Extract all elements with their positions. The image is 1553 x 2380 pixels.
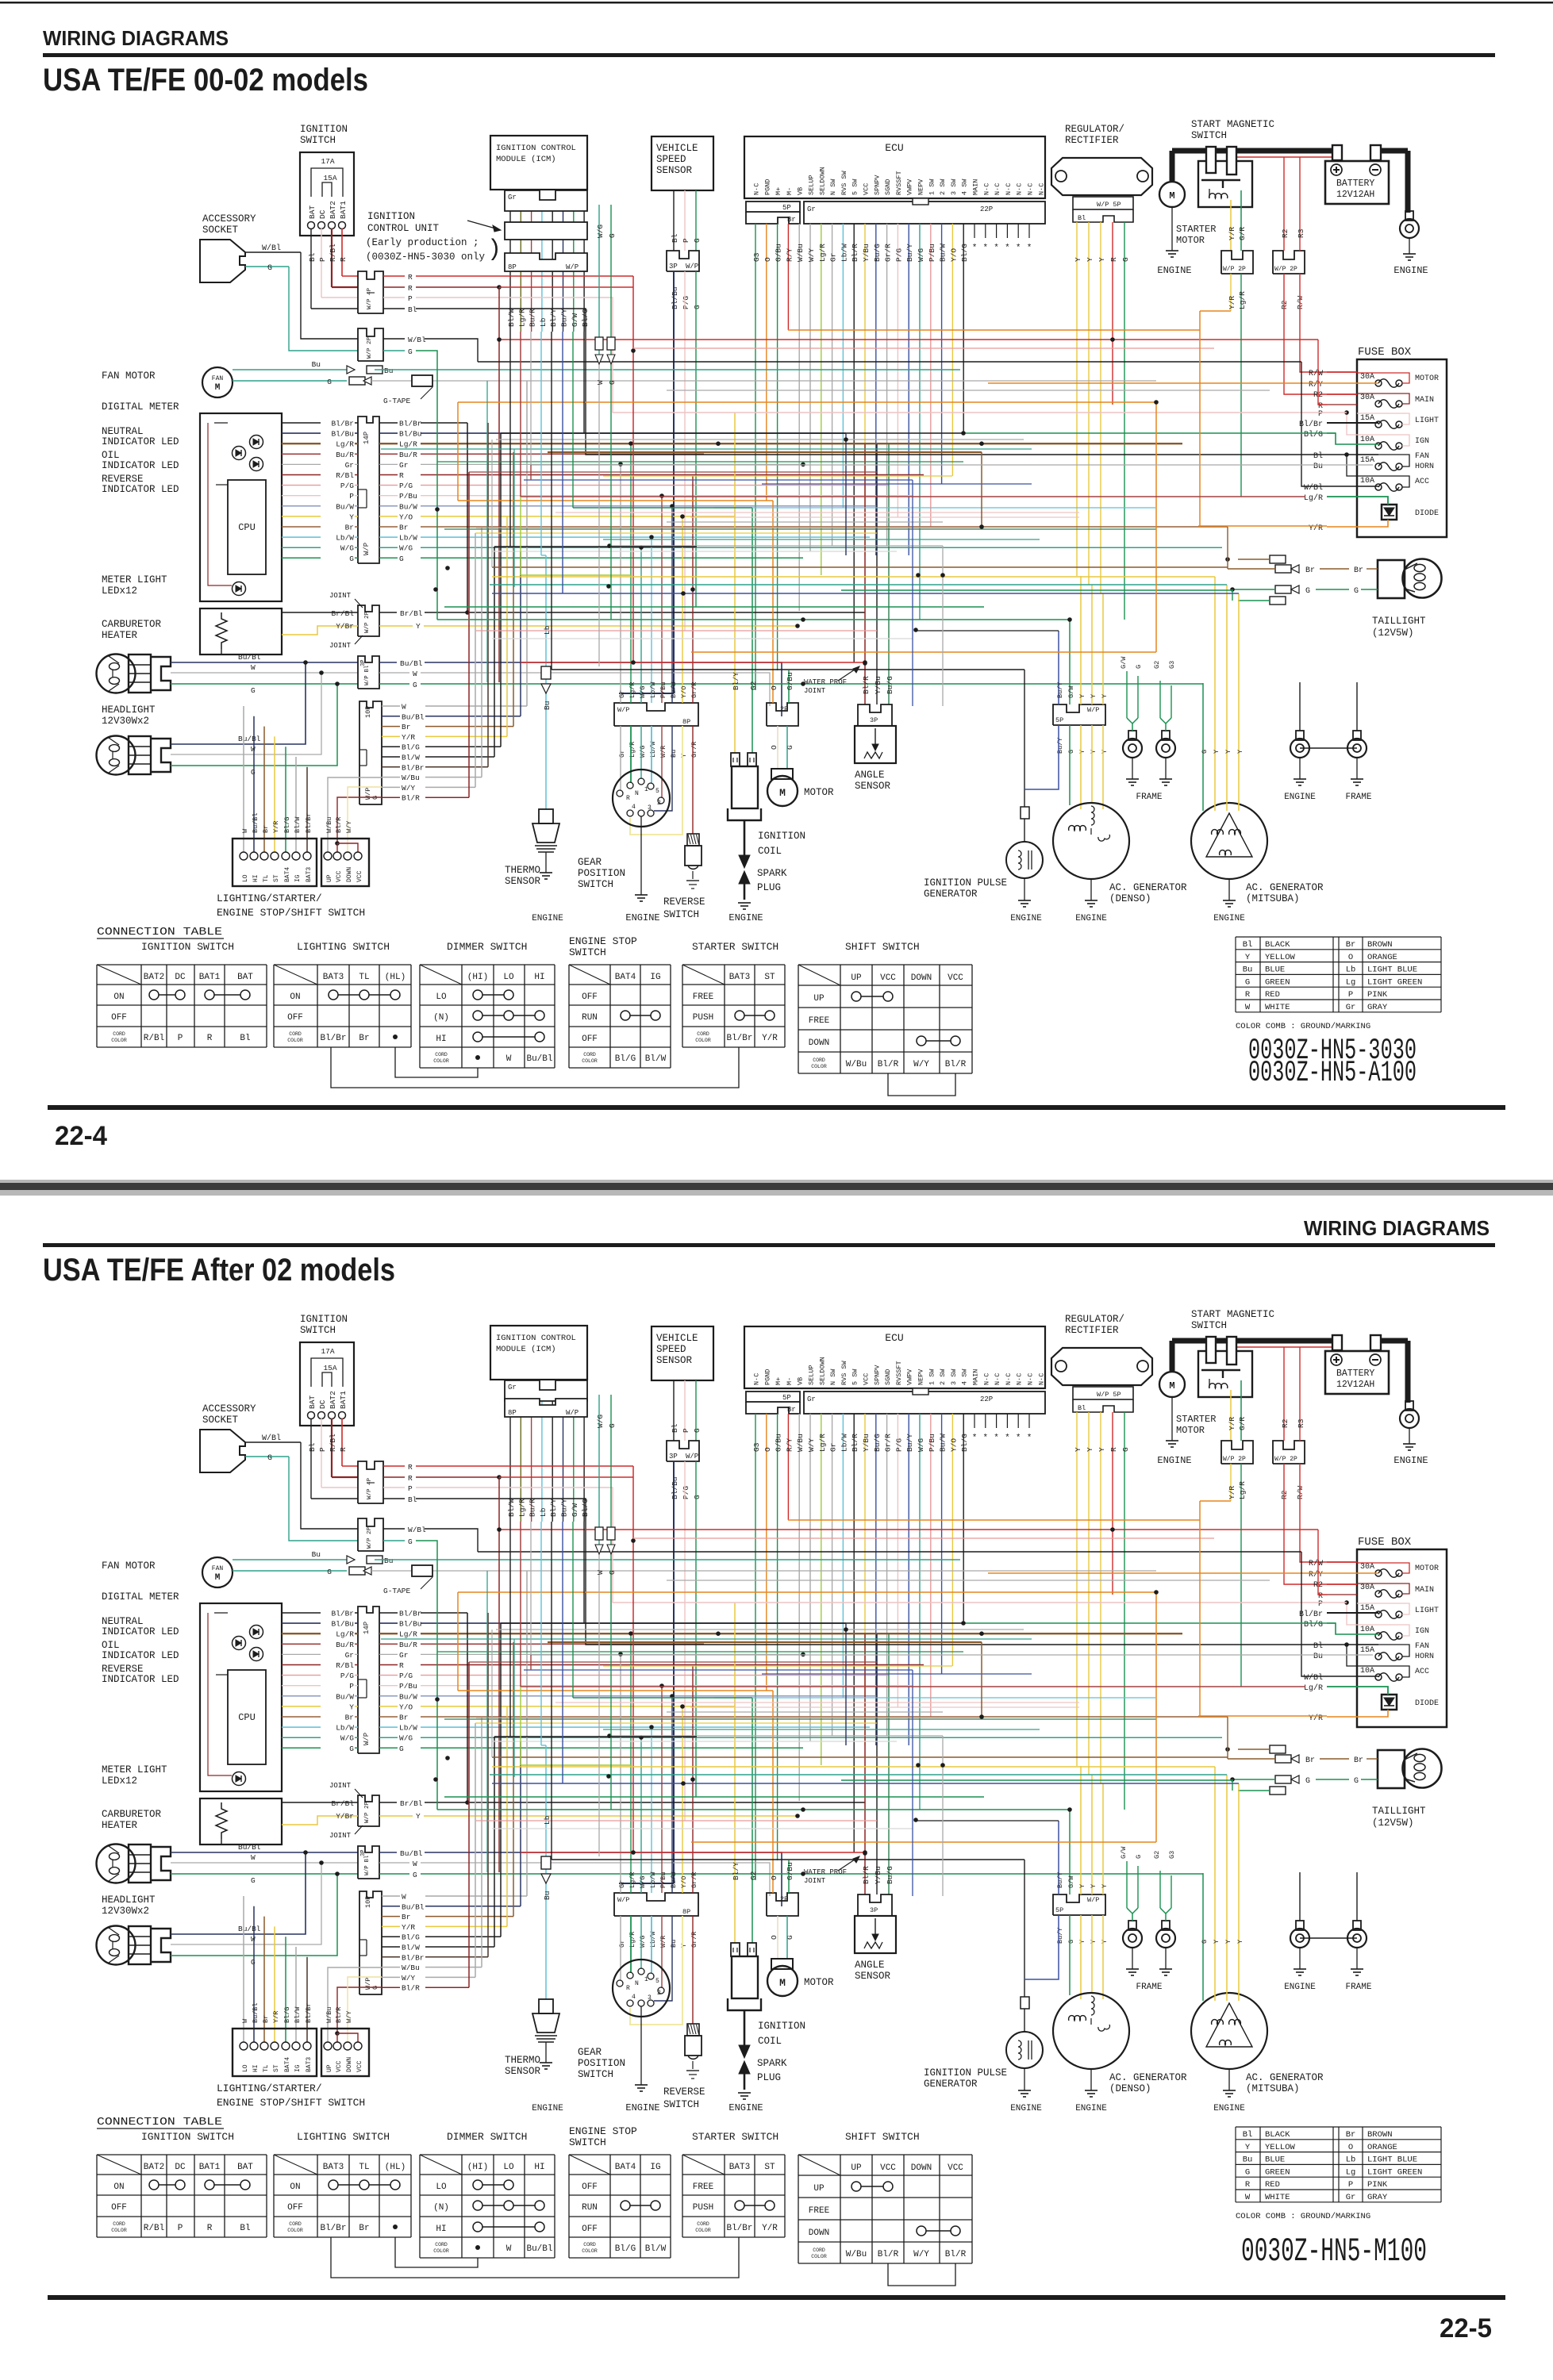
2P right rows W/Bl G: [383, 1528, 405, 1530]
shift switch box: [321, 839, 369, 886]
svg-text:Y/O: Y/O: [399, 512, 413, 521]
svg-text:Lb/W: Lb/W: [399, 1724, 417, 1733]
svg-text:Bl/R: Bl/R: [878, 1060, 899, 1069]
svg-text:Bu: Bu: [384, 367, 393, 375]
svg-text:Gr: Gr: [1346, 2193, 1356, 2202]
svg-text:SELUP: SELUP: [808, 1365, 816, 1385]
svg-text:Bl: Bl: [1078, 1404, 1086, 1412]
svg-text:Bl: Bl: [1078, 214, 1086, 222]
svg-text:Gr/R: Gr/R: [884, 244, 893, 262]
battery terminal stubs: [1332, 145, 1342, 160]
svg-text:JOINT: JOINT: [329, 1832, 352, 1840]
svg-text:R3: R3: [1297, 228, 1305, 238]
svg-text:3P: 3P: [870, 716, 878, 724]
svg-text:W/P: W/P: [686, 263, 698, 271]
svg-text:G3: G3: [1168, 1851, 1176, 1859]
W/P 2P connector (starter relay): [1221, 1441, 1253, 1464]
diode: [1382, 1695, 1397, 1710]
svg-text:Bl/R: Bl/R: [335, 817, 343, 833]
svg-text:ENGINE: ENGINE: [728, 912, 763, 923]
svg-text:INDICATOR LED: INDICATOR LED: [102, 484, 179, 495]
svg-text:Bl/R: Bl/R: [851, 1434, 859, 1452]
svg-text:Bl/Br: Bl/Br: [399, 1610, 422, 1618]
svg-text:GRAY: GRAY: [1367, 2193, 1388, 2202]
svg-text:Bl/Bu: Bl/Bu: [331, 430, 354, 439]
svg-text:P: P: [349, 1682, 354, 1691]
svg-text:W/P 5P: W/P 5P: [1097, 1391, 1121, 1399]
svg-text:IGNITION PULSE: IGNITION PULSE: [924, 877, 1007, 889]
svg-text:N·C: N·C: [982, 1373, 990, 1385]
switch wires up to 10P: [243, 1896, 244, 2042]
svg-text:W: W: [506, 2244, 512, 2254]
motor wires O G/Bu: [772, 501, 774, 703]
svg-text:Bl/W: Bl/W: [294, 2006, 302, 2023]
headlight 1 wires Bu/Bl W G: [171, 1852, 358, 1853]
svg-text:BAT2: BAT2: [329, 201, 337, 219]
svg-text:3P: 3P: [870, 1906, 878, 1914]
svg-text:Br: Br: [1305, 1756, 1315, 1765]
svg-text:R/Y: R/Y: [785, 1438, 794, 1452]
svg-text:Br: Br: [1346, 2130, 1356, 2140]
svg-text:R: R: [207, 2224, 213, 2233]
svg-text:G/Bu: G/Bu: [775, 1434, 783, 1452]
svg-text:Bu: Bu: [670, 1940, 678, 1948]
svg-text:Bl/R: Bl/R: [862, 676, 871, 694]
svg-text:W: W: [402, 703, 406, 712]
svg-text:W/P 2P: W/P 2P: [364, 1801, 371, 1823]
svg-text:JOINT: JOINT: [804, 687, 826, 695]
svg-text:Bl/G: Bl/G: [283, 817, 291, 833]
svg-text:Br: Br: [345, 524, 354, 532]
spark plug arrow: [739, 2061, 750, 2074]
svg-text:N·C: N·C: [1037, 183, 1045, 195]
svg-text:Br: Br: [402, 723, 410, 731]
svg-text:W/P: W/P: [1087, 1896, 1099, 1904]
Mitsuba wires G Y Y Y: [1202, 730, 1204, 811]
svg-text:Y: Y: [1097, 257, 1106, 262]
svg-text:Bl/Br: Bl/Br: [726, 2224, 752, 2233]
junction dots on meter rows: [979, 441, 984, 446]
svg-text:Bu: Bu: [543, 1891, 552, 1900]
svg-text:BAT4: BAT4: [284, 2057, 291, 2072]
motor wires O G/Bu: [772, 1691, 774, 1893]
svg-text:DC: DC: [318, 1399, 327, 1409]
taillight (12V5W): [1403, 1749, 1442, 1788]
svg-text:G: G: [1121, 1447, 1130, 1452]
svg-text:SOCKET: SOCKET: [202, 1415, 239, 1426]
svg-text:G/W: G/W: [1067, 1875, 1075, 1888]
svg-text:G: G: [408, 347, 413, 356]
svg-text:INDICATOR LED: INDICATOR LED: [102, 1650, 179, 1661]
svg-text:W/G: W/G: [340, 544, 354, 553]
svg-text:OFF: OFF: [111, 2203, 127, 2213]
svg-text:MOTOR: MOTOR: [1415, 1564, 1439, 1573]
svg-text:Bl/G: Bl/G: [960, 244, 969, 262]
svg-text:O: O: [770, 1875, 778, 1880]
svg-text:WHITE: WHITE: [1265, 1003, 1290, 1012]
W/P 2P connector (battery): [1273, 251, 1305, 274]
ICM drop extensions: [509, 1522, 511, 1737]
svg-text:Bu/W: Bu/W: [939, 1434, 948, 1452]
svg-text:Y: Y: [1074, 1447, 1082, 1452]
svg-text:17A: 17A: [321, 157, 334, 166]
svg-text:Gr: Gr: [399, 1651, 408, 1660]
svg-text:M-: M-: [786, 187, 794, 195]
svg-text:R: R: [399, 1661, 404, 1670]
svg-text:W/Bl: W/Bl: [408, 1526, 426, 1534]
svg-text:ENGINE: ENGINE: [1157, 1455, 1191, 1466]
svg-text:Y: Y: [1097, 1447, 1106, 1452]
svg-text:DC: DC: [318, 209, 327, 219]
svg-text:ENGINE: ENGINE: [1284, 793, 1316, 802]
svg-text:W/Y: W/Y: [402, 784, 415, 793]
svg-text:R/Bl: R/Bl: [336, 471, 354, 480]
svg-text:BLACK: BLACK: [1265, 940, 1290, 950]
svg-text:(N): (N): [433, 1013, 449, 1023]
svg-text:Y/R: Y/R: [762, 2224, 778, 2233]
svg-text:W/Bu: W/Bu: [402, 773, 420, 782]
wire color legend table: [1236, 2126, 1441, 2128]
svg-text:LO: LO: [503, 973, 514, 982]
svg-text:W: W: [1245, 1003, 1251, 1012]
svg-text:COLOR: COLOR: [582, 1058, 598, 1064]
svg-text:G: G: [693, 305, 702, 309]
svg-text:N: N: [635, 1980, 639, 1987]
long red from ignition R: [632, 1466, 634, 1852]
svg-text:MAIN: MAIN: [1415, 396, 1434, 405]
svg-text:22P: 22P: [980, 205, 993, 213]
svg-text:UP: UP: [851, 2163, 862, 2173]
svg-text:Lg/R: Lg/R: [818, 1434, 827, 1452]
svg-text:Gr: Gr: [345, 1651, 354, 1660]
svg-text:R/W: R/W: [1309, 1559, 1323, 1568]
svg-text:3P: 3P: [360, 1850, 367, 1856]
svg-text:ON: ON: [113, 992, 124, 1002]
svg-text:2P: 2P: [780, 705, 788, 713]
svg-text:LO: LO: [242, 2064, 249, 2072]
fuse link bends: [1357, 1563, 1409, 1573]
svg-text:FUSE BOX: FUSE BOX: [1358, 346, 1412, 359]
ICM output wires Bl/W Lg/R Bu/R Lb Bl/Y Bu/Y G/W Bl/G: [509, 203, 511, 332]
svg-text:ON: ON: [290, 2182, 300, 2192]
svg-text:ENGINE: ENGINE: [1213, 2104, 1245, 2113]
svg-text:10P: 10P: [364, 1896, 372, 1908]
svg-text:Y/Bu: Y/Bu: [874, 1866, 882, 1884]
svg-text:MOTOR: MOTOR: [1176, 235, 1205, 246]
svg-text:MOTOR: MOTOR: [1415, 374, 1439, 383]
svg-text:INDICATOR LED: INDICATOR LED: [102, 460, 179, 471]
svg-text:2 SW: 2 SW: [939, 178, 947, 195]
lighting/starter switch box: [233, 2029, 317, 2076]
svg-text:G: G: [399, 1745, 404, 1753]
2P right rows W/Bl G: [383, 338, 405, 340]
Bu long run to fusebox: [531, 332, 1327, 465]
svg-text:Lb: Lb: [539, 317, 548, 327]
wire G accessory: [245, 266, 289, 267]
svg-text:VCC: VCC: [336, 2060, 343, 2072]
svg-text:Y: Y: [680, 754, 688, 758]
svg-text:10P: 10P: [364, 706, 372, 718]
svg-text:Lb: Lb: [543, 1815, 552, 1825]
svg-text:Bl/Br: Bl/Br: [402, 1953, 425, 1962]
svg-text:Lg/R: Lg/R: [1304, 493, 1323, 503]
svg-text:VCC: VCC: [863, 183, 871, 195]
svg-text:Gr: Gr: [508, 1384, 517, 1392]
svg-text:START MAGNETIC: START MAGNETIC: [1191, 1309, 1274, 1320]
svg-text:P: P: [1318, 1600, 1323, 1609]
svg-text:22P: 22P: [980, 1395, 993, 1403]
G-TAPE marker: [412, 1565, 432, 1576]
svg-text:IGNITION CONTROL: IGNITION CONTROL: [496, 1334, 576, 1343]
svg-text:IG: IG: [294, 2064, 302, 2072]
svg-text:UP: UP: [326, 2064, 333, 2072]
svg-text:RVSSFT: RVSSFT: [895, 1361, 903, 1385]
taillight joint connectors G: [1275, 1775, 1291, 1783]
svg-text:P: P: [682, 238, 690, 243]
svg-text:Y/O: Y/O: [680, 686, 688, 698]
svg-text:0030Z-HN5-M100: 0030Z-HN5-M100: [1241, 2232, 1427, 2271]
svg-text:Bl/G: Bl/G: [960, 1434, 969, 1452]
svg-text:Bu/Bl: Bu/Bl: [252, 812, 259, 833]
Bl/Br drop to carburetor heater row: [467, 423, 468, 612]
svg-text:GENERATOR: GENERATOR: [924, 2079, 978, 2090]
svg-text:MAIN: MAIN: [1415, 1586, 1434, 1595]
svg-text:Y: Y: [1090, 1884, 1097, 1888]
svg-text:IG: IG: [650, 2163, 660, 2172]
svg-text:ST: ST: [764, 973, 775, 982]
svg-text:(12V5W): (12V5W): [1372, 1818, 1414, 1829]
wire W/Bl accessory: [245, 1441, 301, 1443]
wire mesh horizontal runs: [521, 662, 865, 663]
svg-text:WIRING DIAGRAMS: WIRING DIAGRAMS: [43, 26, 229, 50]
svg-text:Y: Y: [1213, 750, 1220, 754]
svg-text:RECTIFIER: RECTIFIER: [1065, 1325, 1119, 1336]
svg-text:(DENSO): (DENSO): [1109, 2083, 1151, 2094]
taillight feed wires: [1225, 1747, 1230, 1752]
switch wires up to 10P: [243, 706, 244, 852]
svg-text:G: G: [413, 681, 417, 689]
page separator: [0, 1180, 1553, 1196]
svg-text:INDICATOR LED: INDICATOR LED: [102, 1626, 179, 1637]
svg-text:Lb/W: Lb/W: [336, 1724, 354, 1733]
svg-text:ENGINE: ENGINE: [532, 914, 563, 923]
svg-text:Bl/Bu: Bl/Bu: [331, 1620, 354, 1629]
svg-text:Y/O: Y/O: [949, 1438, 958, 1452]
svg-text:P/Bu: P/Bu: [659, 1872, 667, 1888]
svg-text:Y: Y: [1101, 694, 1109, 698]
battery - terminal: [1370, 164, 1381, 175]
svg-text:Y: Y: [1086, 1447, 1094, 1452]
svg-text:HI: HI: [534, 2163, 544, 2172]
svg-text:BAT: BAT: [237, 973, 253, 982]
svg-text:G: G: [267, 1454, 272, 1463]
AC generator 5P connector: [1053, 704, 1105, 725]
svg-text:G: G: [1135, 1855, 1143, 1859]
svg-text:G: G: [693, 238, 702, 243]
svg-text:Bl/R: Bl/R: [878, 2250, 899, 2259]
svg-text:Br: Br: [359, 1034, 369, 1043]
svg-text:Br/Bl: Br/Bl: [331, 1799, 354, 1808]
svg-text:FAN: FAN: [212, 1565, 224, 1572]
svg-text:LIGHT: LIGHT: [1415, 1606, 1439, 1615]
svg-text:Bu/Y: Bu/Y: [905, 244, 914, 262]
svg-text:Lg/R: Lg/R: [629, 682, 636, 698]
svg-text:W: W: [506, 1054, 512, 1064]
motor: [771, 769, 793, 779]
svg-text:W/R: W/R: [659, 1936, 667, 1948]
ECU 22P connector: [804, 1392, 1045, 1414]
svg-text:Bl/G: Bl/G: [402, 1933, 420, 1942]
svg-text:Y/R: Y/R: [1228, 227, 1236, 240]
battery negative cable: [1381, 148, 1408, 154]
svg-text:Y/O: Y/O: [949, 248, 958, 262]
ICM output wires Bl/W Lg/R Bu/R Lb Bl/Y Bu/Y G/W Bl/G: [509, 1393, 511, 1522]
fan wires Bu G: [233, 1559, 347, 1560]
svg-text:Y: Y: [1078, 750, 1086, 754]
svg-text:Br: Br: [345, 1714, 354, 1722]
svg-text:(12V5W): (12V5W): [1372, 628, 1414, 639]
svg-text:ENGINE: ENGINE: [1213, 914, 1245, 923]
svg-text:W/Bu: W/Bu: [846, 2250, 867, 2259]
svg-text:Bl/Br: Bl/Br: [320, 1034, 346, 1043]
svg-text:R: R: [1245, 2180, 1251, 2190]
svg-text:W/P 2P: W/P 2P: [1223, 266, 1246, 273]
svg-text:BAT2: BAT2: [144, 2163, 164, 2172]
svg-text:Bu/Bl: Bu/Bl: [238, 735, 261, 743]
svg-text:M+: M+: [775, 187, 782, 195]
svg-text:SWITCH: SWITCH: [1191, 130, 1227, 141]
svg-text:10A: 10A: [1360, 1626, 1374, 1634]
svg-text:P: P: [682, 1428, 690, 1433]
svg-text:IGNITION: IGNITION: [300, 1314, 348, 1325]
svg-text:Lg: Lg: [1346, 2167, 1356, 2177]
svg-text:SELDOWN: SELDOWN: [818, 167, 826, 195]
svg-text:W/G: W/G: [639, 1936, 647, 1948]
svg-text:G: G: [349, 555, 354, 563]
svg-text:R/W: R/W: [1309, 369, 1323, 378]
svg-text:LIGHT BLUE: LIGHT BLUE: [1367, 2155, 1417, 2165]
svg-text:Bl/Y: Bl/Y: [549, 309, 558, 327]
svg-text:*: *: [994, 1434, 999, 1443]
svg-text:Bu/G: Bu/G: [886, 1866, 894, 1884]
svg-text:CORD: CORD: [435, 1052, 448, 1058]
svg-text:SWITCH: SWITCH: [663, 2099, 699, 2110]
svg-text:PUSH: PUSH: [693, 1013, 713, 1023]
svg-text:Bl/R: Bl/R: [945, 2250, 967, 2259]
svg-text:OFF: OFF: [582, 992, 598, 1002]
svg-text:COLOR: COLOR: [111, 2228, 127, 2233]
svg-text:P: P: [318, 257, 327, 262]
svg-text:W/P: W/P: [686, 1453, 698, 1461]
svg-text:Gr: Gr: [508, 194, 517, 202]
angle sensor wires: [864, 444, 866, 704]
10P connector: [359, 1891, 382, 1994]
svg-text:VB: VB: [797, 187, 805, 195]
svg-text:4: 4: [632, 804, 636, 811]
svg-text:Br: Br: [399, 524, 408, 532]
AC generator (DENSO): [1053, 803, 1129, 879]
svg-text:R: R: [339, 257, 348, 262]
svg-text:Bl: Bl: [1313, 1641, 1323, 1651]
svg-text:G: G: [267, 264, 272, 273]
svg-text:3P: 3P: [669, 263, 678, 271]
ICM W/G G drop wires: [598, 205, 600, 355]
svg-text:N·C: N·C: [753, 1373, 761, 1385]
svg-text:COLOR: COLOR: [433, 2248, 449, 2254]
svg-text:3: 3: [648, 804, 652, 812]
svg-text:INDICATOR LED: INDICATOR LED: [102, 436, 179, 447]
svg-text:G: G: [251, 1958, 256, 1967]
svg-text:G: G: [1305, 587, 1310, 596]
svg-text:Y: Y: [1245, 953, 1251, 962]
svg-text:W/Bu: W/Bu: [796, 244, 805, 262]
svg-text:O: O: [763, 1447, 772, 1452]
svg-text:Y: Y: [1101, 750, 1109, 754]
svg-text:Lb: Lb: [1346, 2155, 1356, 2165]
svg-text:RUN: RUN: [582, 2203, 598, 2213]
svg-text:ST: ST: [273, 874, 280, 882]
ECU unused pins: [974, 1414, 975, 1428]
svg-text:Y: Y: [1090, 750, 1097, 754]
svg-text:Bl/G: Bl/G: [402, 743, 420, 752]
svg-text:P: P: [178, 1034, 183, 1043]
10P connector: [359, 701, 382, 804]
svg-text:W/P 2P: W/P 2P: [1223, 1456, 1246, 1463]
svg-text:HI: HI: [436, 1035, 446, 1044]
svg-text:TL: TL: [359, 2163, 369, 2172]
14P wire rows: [282, 1612, 358, 1614]
svg-text:JOINT: JOINT: [804, 1877, 826, 1885]
svg-text:1: 1: [644, 786, 648, 793]
svg-text:R/Bl: R/Bl: [336, 1661, 354, 1670]
gear switch wires above 8P: [620, 464, 621, 703]
svg-text:SENSOR: SENSOR: [656, 1355, 693, 1366]
svg-text:R: R: [1245, 990, 1251, 1000]
taillight joint connectors G: [1275, 585, 1291, 593]
W/P 2P connector left: [358, 328, 383, 361]
vehicle speed sensor: [652, 1326, 713, 1380]
svg-text:M: M: [1169, 1380, 1174, 1392]
svg-text:DOWN: DOWN: [809, 2228, 829, 2238]
svg-text:Y/Bu: Y/Bu: [862, 1434, 871, 1452]
starter motor ground: [1171, 1397, 1173, 1441]
svg-text:Bu/W: Bu/W: [336, 1692, 354, 1701]
svg-text:GRAY: GRAY: [1367, 1003, 1388, 1012]
svg-text:MODULE (ICM): MODULE (ICM): [496, 155, 556, 164]
svg-text:SENSOR: SENSOR: [505, 2066, 541, 2077]
long red from ignition R: [632, 276, 634, 662]
svg-text:ENGINE STOP/SHIFT SWITCH: ENGINE STOP/SHIFT SWITCH: [217, 907, 365, 919]
svg-text:G: G: [608, 1423, 617, 1428]
svg-text:Lg/R: Lg/R: [629, 742, 636, 758]
3P connector headlight: [358, 1846, 379, 1879]
svg-text:CONNECTION TABLE: CONNECTION TABLE: [97, 2116, 222, 2129]
svg-text:Bu: Bu: [1243, 965, 1253, 975]
svg-text:O: O: [770, 685, 778, 690]
mesh junction dots: [801, 617, 805, 622]
svg-text:Bl/Y: Bl/Y: [732, 672, 740, 690]
svg-text:Y/R: Y/R: [1309, 1714, 1323, 1723]
svg-text:Bl/Bu: Bl/Bu: [399, 430, 422, 439]
motor: [771, 1959, 793, 1969]
svg-text:COLOR COMB : GROUND/MARKING: COLOR COMB : GROUND/MARKING: [1236, 1022, 1370, 1031]
svg-text:ENGINE: ENGINE: [1010, 914, 1042, 923]
svg-text:OFF: OFF: [287, 1013, 303, 1023]
4P right rows R R P Bl: [383, 1465, 405, 1467]
svg-text:Bl/R: Bl/R: [862, 1866, 871, 1884]
svg-text:): ): [487, 236, 502, 263]
svg-text:BAT2: BAT2: [144, 973, 164, 982]
